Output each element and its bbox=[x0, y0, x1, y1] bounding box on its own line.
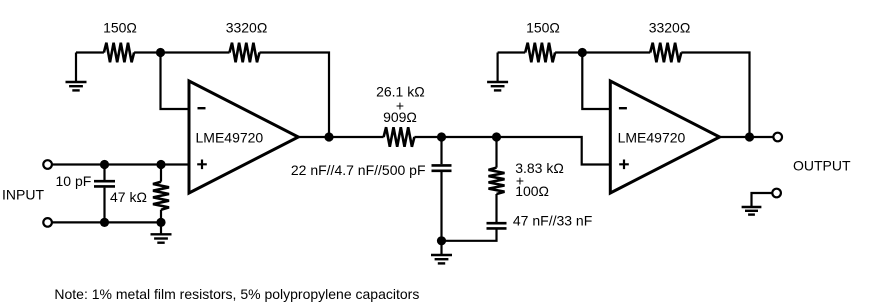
ground (input 47k) bbox=[151, 222, 172, 242]
wire node C to node D bbox=[442, 136, 497, 138]
node G junction (U2 output) bbox=[745, 132, 754, 141]
output terminal top circle bbox=[773, 133, 782, 142]
resistor 150 ohm (stage 1) bbox=[104, 43, 134, 63]
wire input bottom rail bbox=[52, 221, 161, 223]
junction 10 pF bottom bbox=[100, 218, 109, 227]
resistor 3.83k + 100 ohm bbox=[489, 137, 505, 222]
junction 10 pF top bbox=[100, 160, 109, 169]
svg-text:10 pF: 10 pF bbox=[56, 173, 92, 189]
svg-text:150Ω: 150Ω bbox=[103, 20, 137, 36]
svg-text:Note: 1% metal film resistors,: Note: 1% metal film resistors, 5% polypr… bbox=[54, 286, 419, 302]
op-amp U2 LME49720 bbox=[610, 81, 719, 193]
resistor 150 ohm (stage 2) bbox=[525, 43, 555, 63]
svg-text:909Ω: 909Ω bbox=[383, 109, 417, 125]
capacitor 47 nF//33 nF bbox=[487, 223, 507, 228]
ground (stage 2 input resistor) bbox=[487, 53, 508, 91]
resistor 47 kohm bbox=[153, 165, 169, 223]
node F junction (stage 2 inverting node) bbox=[578, 48, 587, 57]
wire 3320 ohm to feedback corner (stage 1) bbox=[260, 53, 330, 138]
svg-text:LME49720: LME49720 bbox=[196, 129, 264, 145]
input terminal bottom circle bbox=[43, 218, 52, 227]
svg-text:47 kΩ: 47 kΩ bbox=[110, 189, 147, 205]
wire input top rail bbox=[52, 163, 189, 165]
wire 150 ohm to node F (stage 2) bbox=[555, 51, 582, 53]
node A junction (stage 1 inverting node) bbox=[156, 48, 165, 57]
wire output ground stub bbox=[752, 193, 773, 207]
wire node F down to inverting input (stage 2) bbox=[582, 53, 611, 110]
svg-text:150Ω: 150Ω bbox=[526, 20, 560, 36]
wire U2 output to output terminal bbox=[720, 136, 774, 138]
svg-text:22 nF//4.7 nF//500 pF: 22 nF//4.7 nF//500 pF bbox=[291, 162, 426, 178]
wire ground to 150 ohm (stage 1) bbox=[76, 51, 104, 53]
resistor 26.1k + 909 ohm bbox=[384, 127, 415, 147]
capacitor 10 pF bbox=[94, 165, 115, 223]
wire ground to 150 ohm (stage 2) bbox=[498, 51, 526, 53]
svg-text:INPUT: INPUT bbox=[2, 187, 44, 203]
svg-text:3320Ω: 3320Ω bbox=[226, 20, 268, 36]
junction node E (cap bottom) bbox=[437, 236, 446, 245]
wire node E to branch 2 bottom bbox=[442, 229, 497, 241]
junction 47k bottom bbox=[156, 218, 165, 227]
svg-text:47 nF//33 nF: 47 nF//33 nF bbox=[513, 213, 592, 229]
ground (output) bbox=[742, 207, 762, 215]
wire node A down to inverting input (stage 1) bbox=[161, 53, 191, 110]
wire 150 ohm to node A bbox=[134, 51, 160, 53]
wire op-amp U1 output to node B bbox=[298, 136, 383, 138]
svg-text:OUTPUT: OUTPUT bbox=[793, 157, 851, 173]
junction 47k top bbox=[156, 160, 165, 169]
node D junction (second branch node) bbox=[492, 132, 501, 141]
ground (stage 1 input resistor) bbox=[66, 53, 87, 91]
wire node A to 3320 ohm bbox=[161, 51, 230, 53]
node C junction (filter cap node) bbox=[437, 132, 446, 141]
ground (filter node E) bbox=[431, 241, 452, 264]
svg-text:3320Ω: 3320Ω bbox=[649, 20, 691, 36]
wire 3320 ohm to feedback corner (stage 2) bbox=[681, 53, 749, 138]
op-amp U1 LME49720 bbox=[189, 81, 298, 193]
wire node F to 3320 ohm (stage 2) bbox=[582, 51, 650, 53]
resistor 3320 ohm (stage 2) bbox=[650, 43, 681, 63]
svg-text:LME49720: LME49720 bbox=[618, 129, 686, 145]
resistor 3320 ohm (stage 1) bbox=[230, 43, 260, 63]
capacitor 22 nF parallel (node C to ground) bbox=[432, 137, 452, 241]
svg-text:100Ω: 100Ω bbox=[515, 183, 549, 199]
wire node D to U2 noninverting input bbox=[497, 137, 611, 165]
output terminal bottom circle bbox=[772, 189, 781, 198]
node B junction (U1 output) bbox=[324, 132, 333, 141]
input terminal top circle bbox=[43, 160, 52, 169]
wire 909 ohm to node C bbox=[414, 136, 441, 138]
